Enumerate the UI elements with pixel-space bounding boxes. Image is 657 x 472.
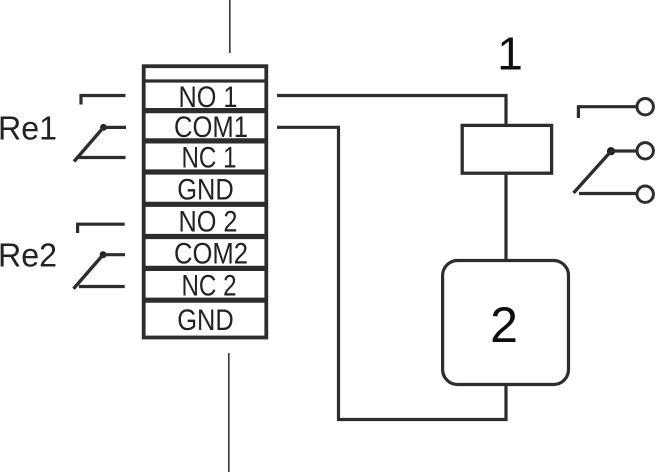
component 1 box [462, 125, 551, 173]
svg-text:COM1: COM1 [174, 111, 248, 144]
relay Re1 movable contact [74, 127, 104, 161]
svg-text:Re1: Re1 [0, 110, 57, 147]
wire top supply line [229, 0, 231, 53]
relay Re2 NC contact [79, 285, 125, 288]
switch NO fixed contact [578, 105, 637, 118]
switch movable contact [574, 151, 612, 193]
svg-text:COM2: COM2 [174, 238, 248, 271]
wire bottom supply line [228, 353, 230, 472]
svg-text:NO 1: NO 1 [179, 81, 238, 114]
terminal row divider 6 [143, 266, 267, 271]
relay Re2 NO contact [78, 223, 125, 233]
terminal block outer frame [144, 66, 267, 337]
terminal row divider 7 [143, 298, 267, 303]
wire COM1 to component 2 [277, 127, 506, 419]
svg-text:1: 1 [497, 28, 523, 80]
terminal row divider 2 [143, 138, 267, 143]
svg-text:Re2: Re2 [0, 237, 57, 274]
relay Re2 COM pivot [100, 251, 125, 258]
svg-text:NO 2: NO 2 [179, 206, 238, 239]
relay Re1 COM pivot [100, 124, 126, 131]
terminal row divider 3 [143, 169, 267, 174]
wire component 1 to component 2 [504, 175, 507, 260]
relay Re1 NO contact [81, 94, 126, 105]
terminal block header line [142, 79, 268, 82]
wire NO1 to component 1 [277, 96, 506, 125]
switch NC fixed contact [579, 192, 637, 195]
svg-text:GND: GND [177, 304, 234, 337]
relay Re2 movable contact [74, 255, 104, 289]
switch pin circle COM [637, 143, 653, 159]
terminal row divider 1 [143, 108, 267, 113]
switch COM pivot [607, 147, 637, 155]
svg-text:2: 2 [490, 297, 518, 353]
terminal row divider 5 [143, 234, 267, 239]
switch pin circle NO [637, 99, 653, 115]
component 2 rounded box [443, 261, 569, 385]
switch pin circle NC [637, 186, 653, 202]
svg-text:NC 2: NC 2 [182, 270, 237, 303]
terminal row divider 4 [143, 202, 267, 207]
relay Re1 NC contact [79, 156, 126, 159]
svg-text:GND: GND [177, 173, 234, 206]
svg-text:NC 1: NC 1 [182, 142, 237, 175]
